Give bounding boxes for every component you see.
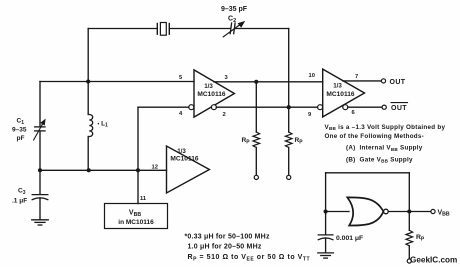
op-amp U1 1/3 MC10116 xyxy=(194,70,234,117)
node junction (256.3,81.8) xyxy=(254,80,258,84)
svg-text:MC10116: MC10116 xyxy=(197,91,226,98)
op-amp U3 1/3 MC10116 xyxy=(167,146,210,193)
svg-text:OUT: OUT xyxy=(391,105,407,112)
wire NOR gate input xyxy=(326,211,349,213)
svg-text:12: 12 xyxy=(152,164,158,170)
svg-text:OUT: OUT xyxy=(390,79,406,86)
wire C3 top xyxy=(39,170,41,194)
node junction (88,81.5) xyxy=(86,79,90,83)
capacitor C3 .1uF xyxy=(32,195,48,200)
svg-text:2: 2 xyxy=(223,112,226,118)
wire pin3 to pin10 xyxy=(214,81,323,83)
svg-text:7: 7 xyxy=(355,74,358,80)
svg-text:1/3: 1/3 xyxy=(333,83,342,90)
svg-text:MC10116: MC10116 xyxy=(170,156,199,163)
wire pin6 out xyxy=(348,106,382,108)
node junction (89,170.3) xyxy=(87,168,91,172)
terminal circle Rp1 xyxy=(254,175,258,179)
wire x256.3 down to Rp1 xyxy=(255,82,257,132)
wire vertical x88 crystal branch xyxy=(87,29,89,82)
svg-text:One of the Following Methods-: One of the Following Methods- xyxy=(325,133,425,140)
pin 9 bubble xyxy=(318,105,323,110)
capacitor C1 (variable, 9-35 pF) xyxy=(34,119,46,140)
resistor Rp3 xyxy=(406,230,413,245)
svg-text:1.0 μH for 20–50 MHz: 1.0 μH for 20–50 MHz xyxy=(188,243,262,250)
svg-text:in MC10116: in MC10116 xyxy=(118,219,154,226)
svg-text:GeekIC.com: GeekIC.com xyxy=(410,256,457,265)
NOR gate U4 xyxy=(347,197,383,225)
svg-text:VBB is a –1.3 Volt Supply Obta: VBB is a –1.3 Volt Supply Obtained by xyxy=(325,124,446,131)
capacitor C2 (variable, 9-35 pF) xyxy=(223,21,245,37)
capacitor 0.001 uF xyxy=(318,235,333,240)
svg-text:1/3: 1/3 xyxy=(204,83,213,90)
svg-text:*0.33 μH for 50–100 MHz: *0.33 μH for 50–100 MHz xyxy=(185,233,270,240)
ground (C3) xyxy=(32,220,48,225)
wire C1 top vertical xyxy=(39,82,41,127)
resistor Rp2 xyxy=(285,132,292,147)
svg-text:(A) Internal VBB Supply: (A) Internal VBB Supply xyxy=(346,145,423,152)
pin 6 bubble xyxy=(343,105,348,110)
svg-text:pF: pF xyxy=(17,135,25,142)
terminal circle OUTbar xyxy=(382,105,386,109)
inductor L1 xyxy=(89,115,92,137)
wire L1 bottom vertical xyxy=(87,137,89,171)
svg-text:10: 10 xyxy=(309,73,315,79)
svg-text:1/3: 1/3 xyxy=(177,148,186,155)
wire cap to ground xyxy=(325,239,327,253)
svg-text:9–35: 9–35 xyxy=(12,127,27,134)
svg-text:MC10116: MC10116 xyxy=(326,91,355,98)
wire Rp3 to terminal xyxy=(408,246,410,259)
node junction (138,170.3) xyxy=(136,168,140,172)
svg-text:.1 μF: .1 μF xyxy=(12,197,27,204)
wire NOR output xyxy=(388,211,431,213)
resistor Rp1 xyxy=(253,132,260,147)
terminal circle OUT xyxy=(381,79,385,83)
svg-text:(B) Gate VBB Supply: (B) Gate VBB Supply xyxy=(346,156,413,163)
pin 2 bubble xyxy=(211,105,216,110)
svg-text:0.001 μF: 0.001 μF xyxy=(336,235,363,242)
wire Rp1 to terminal xyxy=(255,148,257,176)
terminal circle VBB xyxy=(431,209,435,213)
node junction (288.7,107.2) xyxy=(287,105,291,109)
wire NOR left vertical xyxy=(325,173,327,235)
wire crystal to C2 xyxy=(169,28,230,30)
wire pin2 to pin9 xyxy=(216,106,317,108)
wire C3 to ground xyxy=(39,199,41,220)
wire pin4 corner vertical x138 xyxy=(137,107,139,170)
wire pin4 horizontal xyxy=(138,106,189,108)
wire vertical x288.7 from top rail down to Rp2 xyxy=(288,29,290,133)
ground (NOR) xyxy=(318,253,334,258)
svg-text:11: 11 xyxy=(140,196,147,202)
wire bus y170.3 xyxy=(40,169,167,171)
wire C1 bottom vertical xyxy=(39,131,41,170)
op-amp U2 1/3 MC10116 xyxy=(323,69,365,117)
terminal circle Rp2 xyxy=(287,175,291,179)
node junction (409.3,211.5) xyxy=(407,209,411,213)
terminal circle bottom xyxy=(407,259,411,263)
node junction (40,170.3) xyxy=(38,168,42,172)
wire node-A horizontal y81.5 xyxy=(40,81,194,83)
node junction (325.6,211.5) xyxy=(324,209,328,213)
NOR output bubble xyxy=(384,209,389,214)
wire Rp2 to terminal xyxy=(288,148,290,176)
wire pin7 out xyxy=(343,80,382,82)
wire top rail left segment xyxy=(88,28,157,30)
wire L1 top vertical xyxy=(87,82,89,115)
VBB box (VBB in MC10116) xyxy=(105,204,168,229)
crystal Y1 xyxy=(157,23,169,36)
wire NOR right vertical xyxy=(408,173,410,231)
wire pin11 vertical to VBB box xyxy=(137,170,139,203)
pin 4 bubble xyxy=(189,105,194,110)
wire NOR top rail xyxy=(326,172,410,174)
wire C2 to right corner xyxy=(235,28,289,30)
svg-text:9–35 pF: 9–35 pF xyxy=(221,6,248,13)
